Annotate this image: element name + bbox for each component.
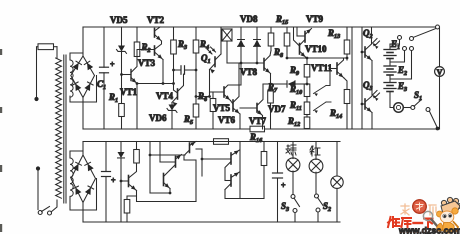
wire flasher base h lower bbox=[150, 192, 170, 194]
watermark mascot bbox=[437, 208, 459, 233]
bridge rectifier 2 diode D3 bbox=[76, 188, 82, 195]
svg-text:Q1: Q1 bbox=[201, 53, 211, 65]
resistor R5 bbox=[193, 104, 199, 117]
svg-text:R15: R15 bbox=[275, 14, 288, 26]
svg-text:R9: R9 bbox=[289, 65, 299, 77]
svg-text:R14: R14 bbox=[329, 108, 342, 120]
bridge rectifier 2 outline bbox=[71, 155, 96, 203]
wire mains N vertical to switch bbox=[37, 171, 39, 210]
watermark red text wei bbox=[388, 217, 400, 227]
wire G to S1 bbox=[403, 107, 411, 109]
wire E2-E3 bbox=[389, 75, 391, 83]
resistor R13 bbox=[344, 40, 350, 54]
transistor VT3 bbox=[154, 46, 156, 55]
wire lamp HL3 to bottom rail bbox=[336, 188, 338, 222]
wire voltmeter column top bbox=[439, 27, 441, 67]
wire bridge 1 negative vertex down to bottom rail bbox=[82, 98, 84, 130]
bridge rectifier 1 diode D1 (upper left) bbox=[72, 63, 78, 70]
svg-text:R1: R1 bbox=[108, 92, 118, 104]
transistor VT6 bbox=[232, 100, 234, 111]
bridge rectifier 1 diode D3 (lower left) bbox=[75, 84, 81, 92]
selector tap terminal c bbox=[410, 47, 414, 51]
photo transistor Q1 bbox=[214, 57, 216, 67]
wire top rail (+) of main supply bbox=[83, 26, 437, 28]
label green lamp bbox=[286, 145, 296, 155]
svg-text:VT4: VT4 bbox=[156, 91, 174, 101]
wire R3 column bbox=[173, 27, 175, 40]
voltmeter V bbox=[435, 67, 445, 77]
wire Q2/Q3 base line bbox=[361, 27, 363, 129]
wire K box down to VT8 base bus bbox=[226, 41, 228, 63]
zener diode VD6 bbox=[171, 103, 173, 105]
svg-text:S3: S3 bbox=[281, 201, 289, 213]
wire base tap to left transistor bbox=[121, 180, 129, 182]
watermark red text yi bbox=[414, 222, 423, 224]
transistor VT lower-left bbox=[128, 176, 130, 187]
resistor R8 bbox=[268, 33, 274, 46]
diode VD8a bbox=[238, 40, 245, 47]
svg-text:Q3: Q3 bbox=[363, 80, 373, 92]
svg-text:www.dzsc.com: www.dzsc.com bbox=[398, 226, 460, 235]
wire cap right lead to R4 column bbox=[185, 69, 197, 71]
wire VT2 emitter to VT3 collector bbox=[155, 41, 162, 49]
wire Q3 base stub bbox=[362, 103, 365, 105]
selector tap terminal b bbox=[403, 47, 407, 51]
resistor R10 bbox=[304, 84, 310, 97]
capacitor C out bbox=[273, 172, 283, 174]
svg-text:S2: S2 bbox=[323, 201, 331, 213]
wire lower block top rail bbox=[83, 141, 340, 143]
wire R8 bottom to VT8 collector bbox=[270, 46, 272, 51]
transformer T secondary winding upper bbox=[70, 60, 73, 97]
transistor flasher T2 bbox=[175, 157, 177, 168]
wire node A to VT1 collector level / horizontal bus bbox=[137, 83, 174, 85]
resistor R lower a bbox=[134, 150, 140, 164]
wire R14 bottom to rail bbox=[346, 104, 348, 130]
wire base bus to output darlington bbox=[201, 149, 203, 176]
resistor R3 bbox=[171, 40, 177, 54]
switch S mains bbox=[38, 211, 42, 215]
capacitor C2 (coupling) bbox=[180, 66, 182, 74]
resistor R12 bbox=[304, 117, 310, 129]
switch S1 lever bbox=[414, 100, 422, 107]
transformer T core bbox=[63, 55, 65, 203]
wire E1-E2 bbox=[389, 59, 391, 67]
svg-text:R8: R8 bbox=[273, 47, 283, 59]
wire VD8a column to VT5 collector bbox=[240, 63, 242, 85]
wire filter cap column lower bbox=[105, 142, 107, 172]
wire output emitter column bbox=[239, 142, 241, 199]
wire Q3 emitter to rail bbox=[371, 113, 373, 130]
switch S1 contact 2 bbox=[426, 108, 430, 112]
wire VT8 base bus bbox=[227, 62, 264, 64]
svg-text:VT11: VT11 bbox=[311, 63, 333, 73]
svg-text:R2: R2 bbox=[141, 42, 151, 54]
photo transistor Q3 bbox=[364, 99, 366, 109]
wire flasher bus h bbox=[150, 154, 185, 156]
pot wiper arrow R10 bbox=[314, 86, 327, 94]
svg-text:R10: R10 bbox=[289, 84, 302, 96]
wire mains L vertical to fuse bbox=[36, 47, 38, 97]
resistor R14 bbox=[344, 90, 350, 104]
wire VT1 base from VD5 column bbox=[122, 74, 132, 76]
wire R3 bottom down to junctions bbox=[173, 54, 175, 90]
svg-text:VT3: VT3 bbox=[138, 58, 156, 68]
wire bus R15 to R13 column bbox=[287, 57, 347, 59]
wire green lamp to S3 bbox=[292, 171, 294, 195]
wire bus to VT11 collector region bbox=[346, 58, 348, 60]
svg-text:VT1: VT1 bbox=[120, 87, 138, 97]
wire VT8 emitter down to divider bus bbox=[270, 74, 272, 85]
wire tap c down to E2/E3 junction bbox=[390, 51, 412, 80]
resistor R lower (series top rail) bbox=[214, 139, 229, 145]
wire R13 column top bbox=[346, 27, 348, 40]
wire flasher feed 2 to T2 base bbox=[160, 161, 176, 163]
photo arrows Q1 bbox=[207, 49, 212, 54]
transistor VT out1 bbox=[230, 153, 232, 164]
wire R15 column bbox=[286, 27, 288, 33]
transistor VT2 bbox=[154, 29, 156, 38]
wire T1 collector to center column bbox=[184, 160, 196, 202]
transistor VT9 bbox=[304, 32, 306, 43]
fuse FU bbox=[38, 44, 54, 50]
wire base bus h bbox=[202, 158, 231, 160]
svg-text:R3: R3 bbox=[177, 39, 187, 51]
svg-text:+: + bbox=[110, 60, 115, 69]
battery E3 bbox=[384, 82, 396, 84]
node mains terminal L bbox=[34, 97, 38, 101]
wire VD5-R1 column bbox=[121, 27, 123, 46]
wire R8 column bbox=[270, 27, 272, 33]
node A junction dot bbox=[162, 82, 165, 85]
wire wiper R10 to VT11 base bbox=[326, 85, 330, 87]
svg-text:R12: R12 bbox=[287, 116, 300, 128]
node output terminal + (top right) bbox=[436, 25, 440, 29]
resistor R15 bbox=[284, 33, 290, 46]
wire tap a to E1 top bbox=[390, 40, 400, 45]
label red lamp bbox=[310, 146, 320, 156]
wire lower-left emitter down/branch bbox=[137, 191, 197, 202]
svg-text:VT6: VT6 bbox=[218, 115, 236, 125]
wire divider bus h y=84 bbox=[263, 83, 287, 85]
transistor VT8 bbox=[263, 59, 265, 71]
resistor R6 bbox=[212, 92, 214, 99]
wire electrolytic cap column bbox=[277, 142, 279, 174]
diode VD8b bbox=[254, 40, 261, 47]
resistor R2 bbox=[134, 42, 140, 57]
wire tap b down to E1/E2 junction bbox=[390, 51, 405, 63]
battery E1 bbox=[389, 44, 391, 50]
wire switch to transformer primary bottom bbox=[51, 200, 57, 212]
wire secondary lower bottom loop bbox=[70, 179, 97, 211]
wire R9 top from bus bbox=[306, 58, 308, 65]
wire VD column lower bbox=[120, 142, 122, 153]
lamp HL green bbox=[292, 142, 294, 159]
motor G bbox=[394, 103, 404, 113]
bridge rectifier 2 diode D4 bbox=[85, 188, 91, 196]
svg-text:+: + bbox=[281, 181, 286, 190]
svg-text:E2: E2 bbox=[397, 65, 407, 77]
bridge rectifier 2 diode D2 bbox=[88, 164, 94, 171]
wire VD8b column bbox=[256, 27, 258, 40]
bridge rectifier 2 diode D1 bbox=[73, 164, 79, 172]
wire bridge top vertex to + rail bbox=[82, 27, 84, 56]
relay K (crossed box) bbox=[222, 29, 232, 41]
resistor R lower b bbox=[124, 200, 130, 214]
svg-text:R13: R13 bbox=[327, 28, 340, 40]
wire VT11 emitter down to R14 bbox=[344, 78, 347, 90]
wire lower resistor to bottom rail bbox=[126, 213, 128, 222]
wire flasher feed 1 bbox=[149, 142, 151, 156]
svg-text:V: V bbox=[437, 68, 443, 77]
svg-text:E3: E3 bbox=[397, 81, 407, 93]
svg-text:VT9: VT9 bbox=[306, 14, 324, 24]
wire S3 to bottom rail bbox=[294, 213, 296, 223]
watermark red text xia bbox=[424, 219, 433, 228]
wire E3 bottom to motor G bbox=[390, 92, 394, 108]
bridge rectifier 1 outline bbox=[71, 56, 95, 98]
resistor R1 bbox=[119, 104, 125, 117]
capacitor C lower bbox=[102, 171, 111, 173]
transistor flasher T1 bbox=[189, 143, 191, 153]
selector tap terminal a bbox=[398, 36, 402, 40]
wire VT out2 collector down bbox=[225, 190, 264, 199]
resistor R16 (in series in bottom rail) bbox=[250, 126, 265, 132]
wire R15 bottom bbox=[286, 46, 288, 58]
wire VD8a column bbox=[240, 27, 242, 40]
wire fuse to transformer primary top bbox=[56, 47, 58, 58]
svg-text:VT7: VT7 bbox=[249, 116, 267, 126]
selector lever from + terminal bbox=[413, 29, 436, 38]
svg-text:+: + bbox=[111, 176, 116, 185]
resistor R11 bbox=[304, 102, 310, 115]
resistor R7 bbox=[270, 84, 272, 91]
wire red lamp to S2 bbox=[315, 172, 317, 194]
wire voltmeter column bottom bbox=[439, 76, 441, 129]
zener diode VD7 (horizontal) bbox=[287, 81, 295, 87]
wire secondary upper bottom to bridge bottom loop bbox=[70, 76, 97, 103]
wire VT5 collector hook bbox=[225, 85, 242, 89]
wire R10-R11 bbox=[306, 97, 308, 103]
node B junction dot bbox=[172, 82, 175, 85]
switch S2 bbox=[315, 194, 319, 198]
watermark red text ku bbox=[402, 218, 412, 228]
svg-text:S1: S1 bbox=[414, 90, 422, 102]
wire secondary lower top to bridge bbox=[70, 151, 83, 158]
svg-text:R16: R16 bbox=[249, 132, 263, 144]
svg-text:VT2: VT2 bbox=[147, 15, 165, 25]
wire vertical feed line 1 bbox=[351, 27, 353, 129]
watermark crown fingers bbox=[441, 197, 460, 214]
wire VT3 base from R2 bbox=[137, 50, 155, 57]
resistor R4 bbox=[193, 40, 199, 53]
wire wiper R11 stub bbox=[326, 101, 331, 103]
svg-text:C1: C1 bbox=[97, 79, 106, 91]
resistor R out bbox=[263, 142, 265, 152]
svg-text:VD6: VD6 bbox=[149, 113, 167, 123]
transistor flasher T3 bbox=[163, 174, 165, 186]
wire VT out1 collector to out2 base bbox=[225, 180, 231, 182]
wire bottom rail of main supply, right part after R16 bbox=[265, 128, 438, 130]
wire lower block bottom rail bbox=[83, 221, 340, 223]
wire R collector column lower-left bbox=[136, 142, 138, 150]
pot wiper arrow R11 bbox=[314, 102, 327, 111]
wire R5 bottom to rail bbox=[195, 117, 197, 129]
switch S1 contact 1 bbox=[411, 106, 415, 110]
transistor VT11 bbox=[336, 63, 338, 74]
wire VT9 base hook bbox=[296, 27, 298, 36]
wire R out bottom bbox=[263, 166, 265, 199]
svg-text:R6: R6 bbox=[197, 91, 208, 103]
watermark magnifier bbox=[423, 211, 432, 220]
bridge rectifier 1 diode D2 (upper right) bbox=[87, 63, 93, 71]
switch S3 bbox=[291, 195, 295, 199]
wire C1 column bbox=[103, 27, 105, 67]
watermark red badge bbox=[413, 200, 427, 214]
photo arrows Q2 bbox=[373, 39, 378, 44]
wire R2 column bbox=[136, 27, 138, 42]
scan edge artifacts bbox=[0, 49, 2, 55]
lamp HL3 bbox=[336, 142, 338, 177]
selector lever contact circle bbox=[410, 37, 414, 41]
battery E2 bbox=[384, 65, 396, 67]
photo transistor Q2 bbox=[364, 47, 366, 57]
resistor R9 bbox=[304, 65, 310, 78]
transistor VT5 bbox=[223, 87, 225, 97]
svg-text:VT10: VT10 bbox=[305, 44, 327, 54]
wire R13 bottom to bus bbox=[346, 54, 348, 58]
transformer T secondary winding lower bbox=[70, 158, 73, 196]
wire T3 emitter down bbox=[169, 189, 171, 194]
wire Q1 emitter down to VT5 base bus bbox=[209, 70, 211, 97]
wire S1 to output terminal bbox=[429, 111, 437, 127]
wire Q1 collector to top rail bbox=[220, 27, 222, 54]
transistor VT4 bbox=[177, 89, 179, 99]
wire VT5 base bus from R6 bbox=[196, 96, 210, 98]
wire Q2 emitter down to Q3 collector bbox=[365, 61, 372, 103]
wire S2 to bottom rail bbox=[317, 212, 319, 222]
svg-text:VD5: VD5 bbox=[110, 15, 128, 25]
svg-text:VD8: VD8 bbox=[240, 14, 258, 24]
wire lower bridge top vertex to rail bbox=[82, 142, 84, 156]
watermark faint glyph 1 bbox=[401, 204, 436, 215]
node mains terminal N bbox=[36, 166, 40, 170]
wire bottom rail of main supply, left part up to R16 bbox=[83, 128, 250, 130]
zener diode VD5 bbox=[118, 46, 125, 52]
wire bridge 2 bottom vertex to bottom rail bbox=[82, 203, 84, 223]
wire flasher feed 1 lower part bbox=[149, 155, 151, 193]
transformer T primary winding (zigzag) bbox=[56, 58, 62, 198]
transistor VT1 bbox=[130, 70, 132, 81]
photo arrows Q3 bbox=[373, 91, 378, 96]
wire secondary upper top to bridge bbox=[70, 53, 83, 60]
bridge rectifier 1 diode D4 (lower right) bbox=[84, 84, 90, 92]
svg-text:R5: R5 bbox=[183, 114, 193, 126]
transistor VT out2 bbox=[230, 175, 232, 186]
transistor VT10 bbox=[299, 44, 301, 55]
diode VD lower bbox=[118, 152, 125, 158]
wire cap left lead bbox=[174, 69, 182, 71]
node output terminal - (bottom right) bbox=[436, 127, 440, 131]
wire R11-R12 bbox=[306, 115, 308, 118]
svg-text:R11: R11 bbox=[289, 100, 302, 112]
wire VT3 emitter down to node A bbox=[162, 60, 164, 84]
wire branch to lower resistor bbox=[127, 196, 137, 200]
svg-text:VT8: VT8 bbox=[240, 67, 258, 77]
node cap junction dot bbox=[172, 69, 175, 72]
capacitor C1 bbox=[100, 66, 109, 68]
wire R9-R10 bbox=[306, 77, 308, 84]
lamp HL red bbox=[315, 142, 317, 160]
wire VT5 base link bbox=[210, 91, 225, 93]
wire flasher feed 2 bbox=[159, 142, 161, 163]
wire VT6 emitter to rail bbox=[239, 114, 241, 129]
transistor VT7 bbox=[256, 104, 258, 113]
wire R4 bottom through cap node down to R5 bbox=[195, 53, 197, 104]
wire R4 column bbox=[195, 27, 197, 40]
wire Q2 base stub bbox=[362, 51, 365, 53]
